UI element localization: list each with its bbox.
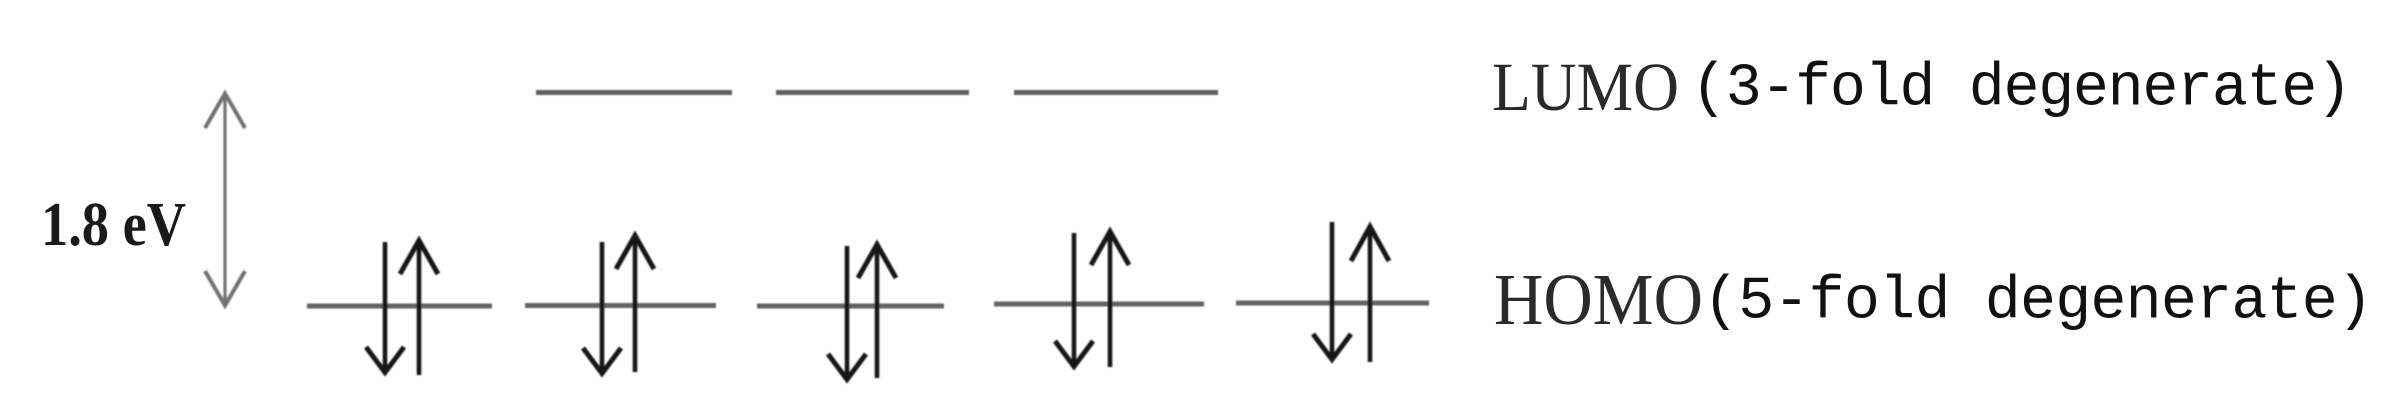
svg-text:LUMO: LUMO [1492, 49, 1679, 125]
svg-text:1.8 eV: 1.8 eV [41, 191, 186, 259]
svg-text:HOMO: HOMO [1494, 259, 1703, 340]
svg-text:(3-fold degenerate): (3-fold degenerate) [1691, 56, 2352, 124]
svg-text:(5-fold degenerate): (5-fold degenerate) [1703, 269, 2373, 337]
